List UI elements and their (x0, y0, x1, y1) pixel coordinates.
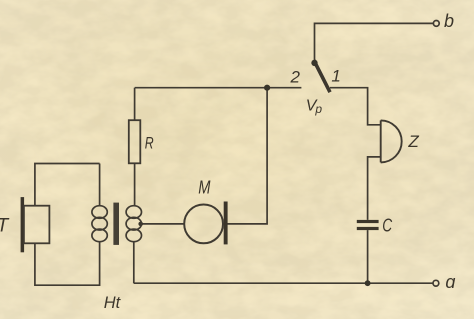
motor M circle (184, 205, 223, 244)
wire: earpiece bottom stub down to capacitor (368, 157, 381, 220)
svg-text:Z: Z (407, 132, 419, 151)
capacitor C plates (357, 220, 379, 223)
switch Vp pivot dot (311, 60, 317, 66)
svg-text:p: p (314, 102, 322, 116)
svg-text:M: M (198, 177, 210, 197)
switch Vp blade (314, 60, 330, 92)
earpiece Z (381, 120, 402, 162)
wire: resistor bottom lead to secondary top (134, 163, 136, 206)
terminal a (433, 280, 439, 286)
svg-text:1: 1 (331, 67, 340, 86)
transformer Ht core (113, 203, 119, 245)
wire: primary top lead (99, 164, 101, 207)
svg-text:T: T (0, 215, 10, 236)
resistor R (129, 120, 141, 163)
wire: motor left wire to transformer tap (141, 223, 185, 225)
crystal T electrode bar (21, 197, 25, 252)
transformer Ht primary winding (92, 206, 107, 242)
wire: resistor top lead (134, 88, 136, 121)
node: transformer tap dot (138, 222, 143, 227)
transformer Ht secondary winding (126, 206, 141, 242)
wire: terminal b to switch pivot (315, 23, 434, 60)
wire: bottom rail to terminal a (134, 282, 434, 284)
terminal b (433, 21, 439, 27)
wire: contact 2 horizontal (135, 87, 302, 89)
wire: T loop top (35, 164, 100, 206)
crystal T body (24, 206, 50, 244)
wire: capacitor to bottom rail (367, 230, 369, 283)
svg-text:b: b (444, 11, 454, 31)
wire: secondary bottom lead to rail (133, 241, 135, 283)
wire: junction to motor right plate (228, 88, 268, 224)
svg-text:2: 2 (290, 68, 301, 87)
wire: contact 1 to earpiece top stub (330, 88, 381, 125)
motor M right plate (224, 202, 228, 245)
node: junction dot on bottom rail (365, 280, 371, 286)
svg-text:ɑ: ɑ (445, 272, 455, 292)
node: junction dot at contact-2 wire (264, 85, 270, 91)
svg-text:Ht: Ht (104, 293, 122, 312)
svg-text:R: R (145, 134, 154, 153)
svg-text:C: C (382, 215, 393, 235)
wire: T loop bottom (35, 241, 100, 285)
